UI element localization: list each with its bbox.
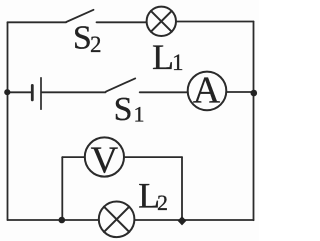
wire bottom right segment (134, 219, 253, 221)
wire battery to S1 (42, 91, 106, 93)
node junction bottom left (59, 217, 66, 224)
wire V branch right vertical (181, 157, 183, 220)
node junction left (4, 89, 10, 95)
wire V branch left vertical (61, 157, 63, 220)
svg-text:2: 2 (157, 190, 168, 215)
battery cell negative plate (31, 85, 34, 100)
label S2 (73, 20, 102, 58)
wire left vertical (7, 22, 9, 220)
wire middle left segment (8, 91, 32, 93)
svg-text:1: 1 (172, 50, 184, 75)
switch S2 (66, 10, 93, 22)
node junction right (251, 90, 258, 97)
wire top middle segment (97, 21, 147, 23)
svg-text:L: L (152, 37, 174, 77)
svg-text:2: 2 (90, 32, 102, 57)
voltmeter circle (85, 137, 124, 176)
label S1 (114, 91, 145, 128)
switch S1 (106, 78, 135, 91)
node junction bottom right (diamond) (178, 216, 187, 225)
wire top left segment (8, 21, 67, 23)
wire V branch left horizontal (62, 156, 85, 158)
svg-text:V: V (91, 139, 119, 181)
lamp L1 (147, 7, 176, 36)
label L1 (152, 37, 184, 77)
wire top right segment (176, 21, 254, 23)
wire voltmeter to right (124, 156, 182, 158)
wire S1 to ammeter (140, 91, 188, 93)
svg-text:S: S (114, 91, 133, 128)
svg-text:S: S (73, 20, 92, 57)
svg-text:1: 1 (134, 102, 145, 127)
ammeter circle (188, 72, 227, 111)
battery cell positive plate (40, 78, 42, 109)
wire ammeter to right (226, 91, 253, 93)
svg-text:A: A (193, 70, 221, 112)
lamp L2 (99, 202, 135, 238)
label L2 (138, 175, 168, 215)
wire bottom left segment (8, 219, 99, 221)
wire right vertical (253, 22, 255, 221)
